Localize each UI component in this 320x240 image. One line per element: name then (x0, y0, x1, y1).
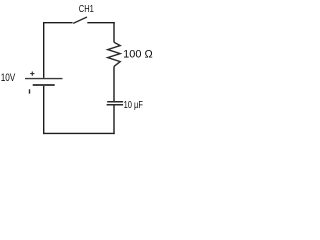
wire right upper (113, 22, 115, 42)
wire right lower (113, 106, 115, 135)
wire top-left segment (43, 22, 73, 24)
label 10V (1, 72, 16, 84)
svg-text:CH1: CH1 (79, 4, 94, 15)
battery plus mark (30, 72, 34, 76)
resistor 100 ohm (108, 42, 121, 66)
capacitor 10uF bottom plate (107, 104, 124, 106)
battery 10V short plate (33, 84, 55, 86)
capacitor 10uF top plate (107, 101, 123, 103)
wire left upper (43, 22, 45, 78)
label 100 ohm (123, 49, 153, 61)
svg-text:100 Ω: 100 Ω (123, 49, 153, 61)
wire top-right segment (87, 22, 114, 24)
switch CH1 (73, 17, 87, 23)
wire left lower (43, 86, 45, 134)
label CH1 (79, 4, 94, 15)
wire right middle (113, 66, 115, 101)
battery minus mark (29, 89, 31, 93)
svg-text:10V: 10V (1, 72, 16, 84)
svg-text:10 µF: 10 µF (124, 100, 143, 111)
wire bottom (43, 132, 115, 134)
battery 10V long plate (25, 78, 63, 80)
label 10 uF (124, 100, 143, 111)
